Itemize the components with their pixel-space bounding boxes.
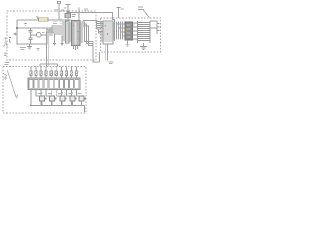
LCD module U3 dark body: [125, 22, 133, 40]
dashed enclosure box B (connector/driver section): [3, 67, 86, 114]
staircase wires from loop to IC pins: [46, 26, 65, 67]
small switch/LED components above strip: [30, 71, 78, 76]
dashed enclosure box C (display section): [101, 18, 161, 52]
pin rows inside U2: [103, 23, 113, 41]
net wire top going right to box C: [67, 9, 114, 41]
driver box right nubs: [45, 98, 86, 100]
right hook wires: [150, 21, 160, 34]
pin-row strip left of IC: [66, 21, 70, 43]
strip cells: [29, 79, 79, 88]
wire bead to IC: [67, 17, 69, 20]
red specks on components: [36, 70, 47, 71]
left glyph inside box B: [3, 73, 7, 80]
driver IC U2 in box C (white): [103, 21, 113, 44]
microcontroller U1 body: [72, 21, 81, 46]
U1 top-right wire up: [78, 8, 80, 21]
capacitor C1 top leg: [29, 28, 33, 35]
ferrite bead L1 between rail and IC: [65, 13, 71, 17]
driver boxes row: [40, 96, 85, 101]
wire W1 net VDD horizontal: [17, 20, 72, 28]
mid wire: [31, 34, 48, 36]
label C? green: [25, 23, 27, 25]
colored net-label specks: [48, 19, 135, 63]
specks right of ground: [37, 49, 40, 51]
fuse F1 on W1: [39, 18, 49, 21]
arrow down 1: [54, 40, 56, 43]
junction node at (17,28): [16, 27, 18, 29]
stubs U3 to ladder: [133, 23, 138, 39]
ground below ladder: [140, 43, 147, 49]
bottom bus: [31, 106, 85, 113]
capacitor C2 bottom leg: [29, 35, 33, 44]
ground below U3: [126, 40, 130, 46]
vertical feeds into box B: [40, 64, 58, 67]
box A bottom label: [20, 48, 26, 50]
switch diagonals on components: [30, 72, 78, 76]
battery loop rectangle: [17, 28, 47, 44]
small glyphs on left dashed edge: [4, 38, 12, 47]
dashed enclosure box A (power/MCU section): [7, 11, 96, 60]
labels between strip and boxes: [38, 93, 82, 95]
stubs strip to IC: [69, 23, 71, 41]
label under box C: [109, 62, 114, 64]
resistor ladder RN1: [138, 21, 151, 43]
label U4 for box C: [138, 7, 150, 18]
box B top-left label: [5, 63, 10, 65]
power rail symbol VCC top: [66, 5, 71, 14]
wires from box top into small components and strip: [31, 67, 77, 79]
connector strip J1 in box B: [28, 78, 80, 90]
connections from boxes to bus: [36, 96, 82, 106]
wires below strip to driver boxes: [31, 90, 77, 106]
colored specks above driver boxes: [42, 93, 74, 94]
U1 right pins: [80, 22, 83, 42]
gap bus wires between U2 and U3: [117, 22, 126, 40]
power flag 2: [57, 2, 60, 20]
bus junction dots: [30, 105, 82, 106]
wire from IC right to distribution: [83, 21, 103, 63]
U1 bottom stubs: [74, 46, 78, 51]
power flag near box C: [117, 8, 121, 19]
ground below loop: [27, 44, 32, 49]
arrow down 2: [61, 40, 63, 43]
source circle V1: [36, 33, 41, 38]
leader diagonal inside box B: [7, 70, 16, 97]
short stubs left of pin strip: [53, 21, 66, 40]
connector arrow at left edge: [14, 33, 18, 35]
wires below U2: [105, 44, 107, 61]
tick glyph below box A corner: [4, 53, 7, 57]
